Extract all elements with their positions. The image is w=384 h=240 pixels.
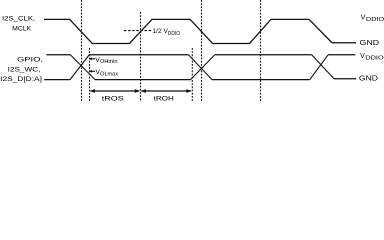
data crossover 2 falling diagonal xyxy=(189,55,212,80)
data crossover 3 falling diagonal xyxy=(312,55,334,79)
dashed guide data valid start (x=89) xyxy=(89,48,91,102)
svg-text:OLmax: OLmax xyxy=(100,72,118,78)
svg-text:DDIO: DDIO xyxy=(366,17,384,23)
dashed guide clock rising edge (x=140) xyxy=(140,12,142,102)
data bus bottom rail segment 3 xyxy=(212,79,310,81)
tROH dimension arrow xyxy=(141,90,191,92)
half-VDDIO dashed level line xyxy=(124,30,152,32)
svg-text:tROH: tROH xyxy=(154,95,174,102)
dashed guide data invalid start (x=192) xyxy=(191,48,193,102)
svg-text:I2S_D[D:A]: I2S_D[D:A] xyxy=(0,76,42,83)
svg-text:MCLK: MCLK xyxy=(12,25,32,32)
svg-text:DDIO: DDIO xyxy=(168,31,180,37)
data crossover 2 rising diagonal xyxy=(191,55,215,80)
svg-text:DDIO: DDIO xyxy=(365,56,383,62)
VOHmin tick arrow xyxy=(90,58,95,60)
svg-text:GND: GND xyxy=(359,74,378,82)
tROS dimension arrow xyxy=(90,90,139,92)
data crossover 1 rising diagonal xyxy=(70,55,89,80)
svg-text:I2S_CLK,: I2S_CLK, xyxy=(2,15,35,22)
data crossover 3 rising diagonal xyxy=(310,55,328,80)
svg-text:1/2 V: 1/2 V xyxy=(153,28,169,35)
svg-text:GPIO,: GPIO, xyxy=(17,57,43,64)
svg-text:OHmin: OHmin xyxy=(100,59,118,65)
dashed guide clock rising edge 2 (x=260.5) xyxy=(260,0,262,102)
dashed guide clock falling edge 1 (x=81) xyxy=(81,0,83,102)
svg-text:tROS: tROS xyxy=(102,95,125,102)
svg-text:I2S_WC,: I2S_WC, xyxy=(8,66,41,73)
data crossover 1 falling diagonal xyxy=(71,55,96,80)
data bus bottom rail segment 1 xyxy=(44,79,70,81)
data bus top rail segment 4 xyxy=(328,54,355,56)
data bus bottom rail segment 2 xyxy=(95,79,191,81)
data bus top rail segment 1 xyxy=(47,54,71,56)
data bus top rail segment 3 xyxy=(215,54,312,56)
data bus bottom rail segment 4 xyxy=(334,78,356,80)
VOLmax tick arrow xyxy=(90,70,95,72)
dashed guide clock falling edge 2 (x=201.5) xyxy=(201,0,203,102)
data bus top rail segment 2 xyxy=(89,54,188,56)
clock waveform I2S_CLK/MCLK xyxy=(44,19,356,43)
svg-text:GND: GND xyxy=(360,39,379,47)
